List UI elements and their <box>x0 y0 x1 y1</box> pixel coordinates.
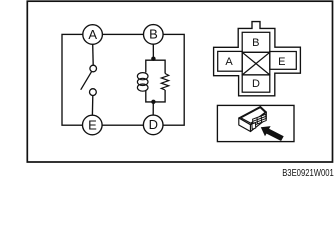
arrow pointing at relay <box>261 126 284 141</box>
wire: bottom junction to D <box>152 102 154 115</box>
wire: A to switch upper contact <box>92 44 95 65</box>
svg-text:B: B <box>149 27 158 42</box>
node D (terminal D) <box>143 115 163 135</box>
wire: parallel network top bar <box>146 60 165 73</box>
svg-text:E: E <box>278 56 285 68</box>
node A (terminal A) <box>83 25 103 45</box>
wire: switch lower contact to E <box>91 96 93 116</box>
node B (terminal B) <box>144 25 164 45</box>
connector pin A cavity <box>218 51 243 71</box>
relay connector detail <box>252 114 266 129</box>
svg-text:D: D <box>252 78 260 90</box>
connector pin D cavity <box>242 75 270 92</box>
connector pin B cavity <box>242 32 270 52</box>
svg-text:B: B <box>252 37 259 49</box>
svg-text:A: A <box>225 56 233 68</box>
inductor (coil) left branch <box>137 73 148 92</box>
node E (terminal E) <box>83 115 103 135</box>
svg-text:E: E <box>88 117 97 132</box>
svg-text:D: D <box>149 117 158 132</box>
wire: B down to top junction <box>152 44 154 60</box>
resistor (zigzag) right branch <box>161 74 168 91</box>
wire: outer circuit loop <box>62 34 184 125</box>
svg-text:B3E0921W001: B3E0921W001 <box>282 168 334 179</box>
connector housing outline with index tab <box>214 22 301 96</box>
relay icon box <box>217 105 294 141</box>
connector center key (blocked cavity with X) <box>242 52 270 75</box>
wire: parallel network bottom bar <box>146 90 165 102</box>
junction dot (top) <box>151 57 155 61</box>
connector pin E cavity <box>270 52 297 70</box>
junction dot (bottom) <box>151 100 155 104</box>
relay body (3D box) <box>239 107 266 132</box>
switch (open) between A and E <box>81 65 96 95</box>
svg-text:A: A <box>88 27 97 42</box>
